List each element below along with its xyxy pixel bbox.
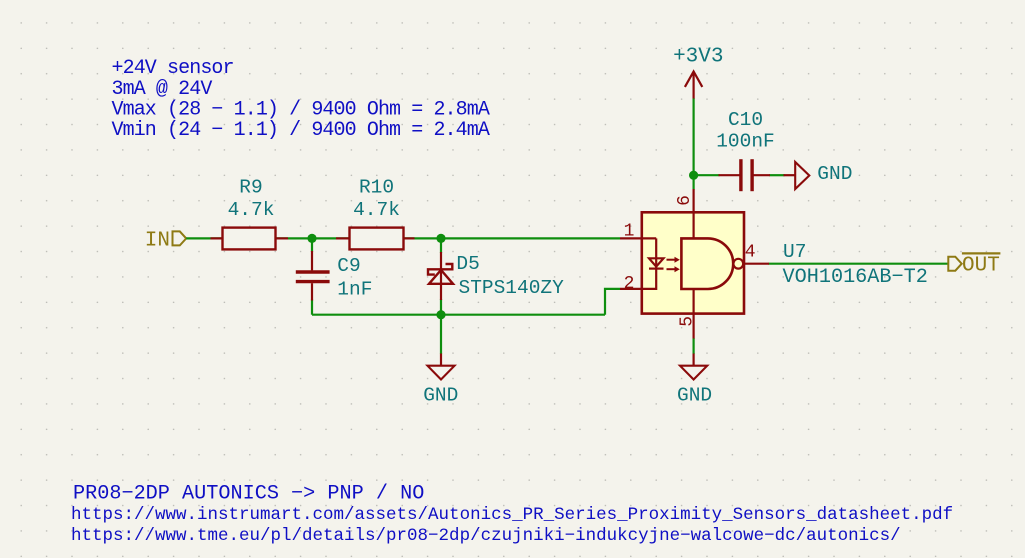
ground GND3 right of C10 — [784, 162, 853, 189]
wire IN to R9 — [186, 237, 312, 239]
junction node at R10/D5 — [436, 234, 445, 243]
hierarchical label OUT — [948, 253, 1000, 277]
svg-text:IN: IN — [145, 230, 170, 253]
resistor R9 — [211, 176, 289, 249]
svg-text:D5: D5 — [456, 253, 479, 275]
note text +24V sensor block — [112, 57, 490, 142]
svg-text:1: 1 — [624, 221, 635, 241]
svg-text:5: 5 — [677, 316, 697, 327]
wire R10 to U7 pin 1 — [441, 237, 620, 239]
junction node at R9/R10/C9 — [307, 234, 316, 243]
svg-text:PR08−2DP AUTONICS −> PNP / NO: PR08−2DP AUTONICS −> PNP / NO — [73, 483, 424, 506]
wire D5 top — [440, 238, 442, 253]
capacitor C9 — [296, 251, 373, 301]
wire corner up to pin 2 — [605, 289, 620, 315]
svg-text:R9: R9 — [239, 176, 262, 198]
ground GND2 under U7 — [677, 354, 712, 407]
svg-text:2: 2 — [624, 274, 635, 294]
svg-text:Vmin (24 − 1.1) / 9400 Ohm = 2: Vmin (24 − 1.1) / 9400 Ohm = 2.4mA — [112, 119, 490, 142]
junction node at 3V3/C10 — [689, 171, 698, 180]
wire C10 to GND3 — [769, 174, 784, 176]
svg-text:R10: R10 — [359, 176, 394, 198]
capacitor C10 — [716, 109, 775, 191]
power +3V3 — [673, 46, 723, 99]
wire U7 pin 4 to OUT — [769, 263, 949, 265]
svg-text:https://www.tme.eu/pl/details/: https://www.tme.eu/pl/details/pr08−2dp/c… — [71, 526, 901, 546]
svg-text:OUT: OUT — [962, 255, 1000, 278]
svg-text:GND: GND — [677, 385, 712, 407]
svg-text:C9: C9 — [337, 255, 360, 277]
ground GND1 under D5 — [423, 354, 458, 407]
svg-text:4: 4 — [745, 243, 756, 263]
junction node at D5/GND bus — [436, 310, 445, 319]
hierarchical label IN — [145, 230, 186, 253]
svg-text:1nF: 1nF — [337, 278, 372, 300]
svg-text:+3V3: +3V3 — [673, 46, 723, 69]
wire U7 pin 5 to GND2 — [692, 338, 694, 354]
svg-text:6: 6 — [675, 195, 695, 206]
resistor R10 — [336, 176, 415, 249]
diode D5 zener — [428, 252, 564, 300]
svg-text:GND: GND — [817, 163, 852, 185]
svg-text:https://www.instrumart.com/ass: https://www.instrumart.com/assets/Autoni… — [71, 505, 953, 525]
wire C9 bottom drop — [311, 300, 313, 315]
svg-text:4.7k: 4.7k — [228, 199, 275, 221]
wire junction to C9 top — [311, 238, 313, 252]
svg-text:C10: C10 — [728, 109, 763, 131]
svg-text:GND: GND — [423, 385, 458, 407]
svg-text:4.7k: 4.7k — [353, 199, 400, 221]
wire junction to C10 — [694, 174, 720, 176]
wire bottom bus C9 to corner — [312, 314, 605, 316]
svg-text:STPS140ZY: STPS140ZY — [459, 277, 565, 299]
svg-text:100nF: 100nF — [716, 130, 775, 152]
wire D5 bottom — [440, 299, 442, 315]
wire R9 to R10 — [312, 237, 441, 239]
svg-text:U7: U7 — [783, 241, 806, 263]
wire junction to GND1 — [440, 315, 442, 354]
svg-text:+24V sensor: +24V sensor — [112, 57, 234, 80]
svg-text:VOH1016AB−T2: VOH1016AB−T2 — [783, 266, 928, 289]
op-amp U7 optocoupler — [620, 189, 928, 339]
note text PR08-2DP links block — [71, 483, 953, 547]
wire +3V3 rail — [692, 98, 694, 190]
